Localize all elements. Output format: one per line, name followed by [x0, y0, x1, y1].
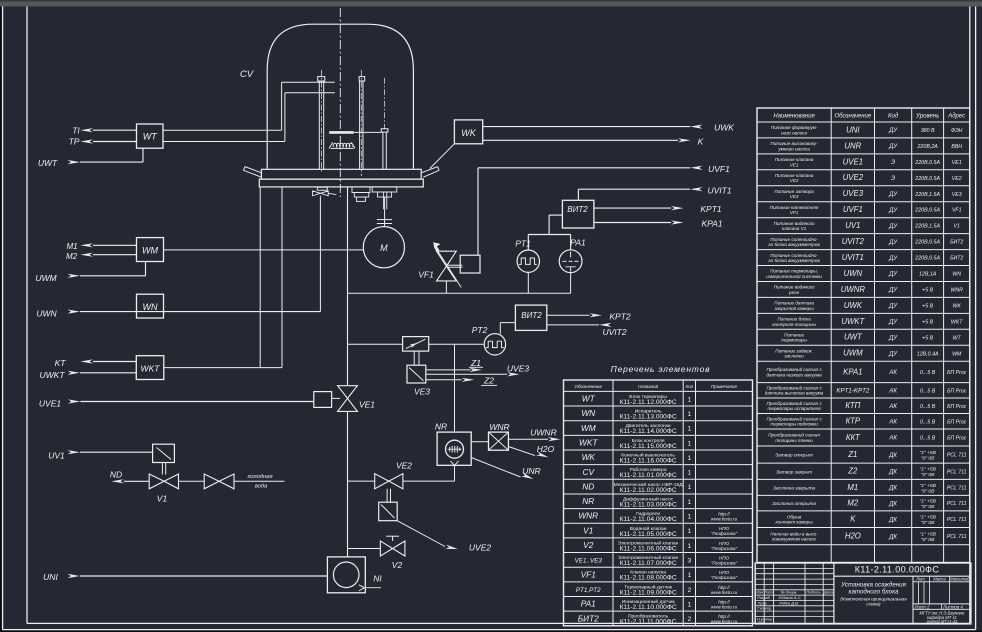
VF1 stem: [445, 281, 447, 293]
gauge PT2 thermocouple: [484, 334, 505, 355]
shaft coupling: [377, 219, 392, 221]
svg-text:0...5 В: 0...5 В: [920, 436, 936, 442]
svg-text:го блока вакуумметров: го блока вакуумметров: [768, 242, 820, 247]
pump NR diffusion: [437, 432, 471, 465]
arrow TP: [80, 139, 93, 143]
svg-text:UVIT1: UVIT1: [707, 186, 731, 196]
svg-text:"1" +5В: "1" +5В: [919, 483, 936, 489]
elements table: [564, 380, 753, 626]
svg-text:WT: WT: [143, 132, 158, 142]
electrode right rod: [359, 81, 361, 169]
svg-text:Затвор открыт: Затвор открыт: [775, 453, 813, 459]
wire BIT2 to gauges: [549, 214, 562, 216]
wire UVE3: [426, 373, 507, 375]
svg-text:толщины пленки: толщины пленки: [775, 438, 813, 443]
svg-text:Преобразований сигнал с: Преобразований сигнал с: [766, 385, 822, 391]
svg-text:Преобразований сигнал с: Преобразований сигнал с: [766, 415, 822, 421]
shutter shaft: [384, 78, 386, 129]
NI exhaust: [364, 587, 381, 589]
svg-text:UWNR: UWNR: [530, 427, 556, 437]
svg-text:PCL 711: PCL 711: [947, 517, 967, 523]
wire UNI: [68, 574, 81, 578]
svg-text:WN: WN: [143, 302, 158, 312]
svg-text:NI: NI: [373, 574, 382, 584]
gate valve VE3 body: [403, 337, 429, 352]
svg-text:ДУ: ДУ: [888, 144, 898, 150]
svg-text:0...5 В: 0...5 В: [920, 419, 936, 425]
svg-text:UNR: UNR: [522, 466, 540, 476]
svg-text:ДУ: ДУ: [888, 336, 898, 342]
svg-text:H2O: H2O: [845, 532, 861, 541]
manifold wire: [348, 292, 571, 294]
svg-text:“Геофизика”: “Геофизика”: [711, 546, 738, 551]
title block name cell: [912, 576, 914, 624]
svg-text:БП Proc: БП Proc: [947, 388, 967, 394]
svg-text:Подпись: Подпись: [807, 591, 821, 595]
gauge PT1 thermocouple: [517, 250, 539, 272]
svg-text:реле: реле: [788, 290, 800, 295]
svg-text:V1: V1: [954, 224, 960, 230]
arrow UWNR: [548, 437, 561, 441]
svg-text:К11-2.11.02.000ФС: К11-2.11.02.000ФС: [620, 487, 677, 494]
title block left grid: [763, 563, 765, 624]
svg-text:PCL 711: PCL 711: [947, 453, 967, 459]
svg-text:UWN: UWN: [844, 269, 863, 278]
svg-text:КТП: КТП: [845, 401, 860, 410]
svg-text:закрытой камеры: закрытой камеры: [773, 305, 814, 311]
svg-text:К11-2.11.03.000ФС: К11-2.11.03.000ФС: [620, 501, 677, 508]
svg-text:Э: Э: [891, 160, 895, 166]
VE2 stems: [386, 489, 388, 502]
wire KPT2: [547, 314, 590, 316]
wire KPA1: [594, 222, 671, 224]
svg-text:WKT: WKT: [579, 437, 598, 447]
gauge stems to manifold: [527, 272, 529, 293]
chamber centerline: [339, 8, 341, 197]
box WM shutter motor driver: [137, 238, 164, 262]
svg-text:KPT1: KPT1: [700, 204, 722, 214]
svg-text:WKT: WKT: [951, 319, 963, 325]
svg-text:UWT: UWT: [844, 333, 863, 342]
VE3 stems: [413, 351, 415, 365]
svg-text:UWNR: UWNR: [841, 285, 866, 294]
wire main to V2: [348, 548, 381, 550]
svg-text:WK: WK: [582, 452, 596, 462]
svg-text:12В,1А: 12В,1А: [919, 272, 937, 278]
svg-text:12В,0.4А: 12В,0.4А: [917, 351, 939, 357]
svg-text:датчика высокого вакуума: датчика высокого вакуума: [765, 391, 824, 396]
shutter bar: [329, 131, 353, 134]
svg-text:VF1: VF1: [790, 210, 799, 215]
svg-text:К11-2.11.15.000ФС: К11-2.11.15.000ФС: [620, 443, 677, 450]
svg-text:PT1: PT1: [515, 239, 531, 249]
svg-text:UV1: UV1: [48, 450, 65, 460]
svg-text:БИТ2: БИТ2: [578, 613, 599, 623]
svg-text:UNI: UNI: [846, 125, 860, 134]
svg-text:UVIT2: UVIT2: [842, 237, 865, 246]
svg-text:H2O: H2O: [537, 444, 555, 454]
wire H2O diagonal: [508, 447, 535, 456]
right handle: [421, 167, 437, 173]
svg-text:1: 1: [687, 601, 691, 608]
svg-text:БИТ2: БИТ2: [950, 240, 963, 246]
V1 actuator box: [153, 444, 175, 462]
wire UWM: [68, 274, 81, 278]
svg-text:"0" 0В: "0" 0В: [921, 504, 935, 510]
arrow KT: [80, 359, 93, 363]
wire UVE2 diagonal: [397, 521, 445, 547]
svg-text:АК: АК: [888, 389, 897, 395]
svg-text:К11-2.11.06.000ФС: К11-2.11.06.000ФС: [620, 545, 677, 552]
svg-text:UWK: UWK: [844, 301, 863, 310]
svg-text:UVE3: UVE3: [843, 189, 864, 198]
arrow M2: [80, 253, 93, 257]
svg-text:PA1: PA1: [570, 238, 586, 248]
svg-text:измерительной системы: измерительной системы: [766, 273, 822, 279]
wire cold water: [234, 480, 284, 482]
svg-text:WK: WK: [953, 303, 962, 309]
svg-text:220В,0.5А: 220В,0.5А: [914, 176, 940, 182]
svg-text:ДУ: ДУ: [888, 304, 898, 310]
svg-text:M1: M1: [66, 242, 77, 251]
svg-text:VE3: VE3: [790, 194, 799, 199]
svg-text:“Геофизика”: “Геофизика”: [711, 531, 738, 536]
svg-text:Z2: Z2: [847, 467, 858, 476]
manual water valve: [204, 474, 234, 489]
svg-text:"0" 0В: "0" 0В: [921, 520, 935, 526]
wire V1 to manual valve: [179, 480, 205, 482]
svg-text:Названий: Названий: [638, 383, 658, 389]
svg-text:Примечание: Примечание: [711, 384, 737, 389]
svg-text:M2: M2: [66, 252, 78, 261]
wire WM to motor: [164, 249, 364, 251]
svg-text:контакт камеры: контакт камеры: [775, 520, 813, 525]
svg-text:"0" 0В: "0" 0В: [921, 472, 935, 478]
svg-text:ДУ: ДУ: [888, 320, 898, 326]
arrow KPA1: [671, 220, 684, 224]
svg-text:Код: Код: [888, 114, 899, 120]
svg-text:UNI: UNI: [43, 572, 58, 582]
arrow Z2: [462, 378, 475, 382]
feedthrough vent valve under plate: [317, 187, 327, 190]
arrow K: [678, 138, 691, 142]
svg-text:220В,2А: 220В,2А: [916, 144, 938, 150]
svg-text:K: K: [698, 136, 704, 146]
svg-text:БП Proc: БП Proc: [947, 436, 967, 442]
svg-text:К11-2.11.14.000ФС: К11-2.11.14.000ФС: [620, 428, 677, 435]
svg-text:Рябов Д.В.: Рябов Д.В.: [779, 600, 799, 605]
svg-text:1: 1: [687, 455, 691, 462]
VE3 solenoid box: [407, 365, 426, 383]
arrow UWK: [690, 125, 703, 129]
svg-text:VF1: VF1: [418, 270, 434, 280]
svg-text:NR: NR: [582, 496, 594, 506]
svg-text:ДК: ДК: [888, 501, 897, 507]
wire PT2 to BIT2 lower: [499, 323, 501, 334]
VF1 actuator box: [460, 255, 480, 273]
svg-text:контроля толщины: контроля толщины: [772, 322, 816, 327]
wire WKT to chamber: [164, 367, 282, 369]
outer drawing border: [2, 7, 4, 630]
svg-text:клапана V1: клапана V1: [782, 226, 807, 231]
svg-text:Разраб.: Разраб.: [757, 596, 771, 600]
wire UWK: [483, 126, 690, 128]
title block list row: [913, 603, 971, 605]
svg-text:Юдаков А.С.: Юдаков А.С.: [779, 595, 802, 600]
svg-text:Кол: Кол: [686, 384, 694, 389]
svg-text:220В,1.5А: 220В,1.5А: [914, 192, 940, 198]
svg-text:Уровень: Уровень: [915, 114, 939, 120]
wire UVIT2: [547, 324, 599, 326]
svg-text:VE2: VE2: [396, 461, 412, 471]
svg-text:UWN: UWN: [36, 309, 57, 319]
arrow Z1: [469, 368, 482, 372]
svg-text:VE1..VE3: VE1..VE3: [575, 558, 603, 565]
svg-text:ДК: ДК: [888, 453, 897, 459]
svg-text:ДУ: ДУ: [888, 256, 898, 262]
svg-text:К11-2.11.13.000ФС: К11-2.11.13.000ФС: [620, 414, 677, 421]
wire WN to chamber vent: [319, 196, 321, 312]
svg-text:WNR: WNR: [489, 422, 509, 432]
box WN evaporator supply: [137, 294, 164, 318]
V1 stems: [161, 463, 163, 475]
svg-text:ФЭН: ФЭН: [951, 128, 963, 134]
svg-text:KPT2: KPT2: [609, 311, 631, 321]
svg-text:Заслонка закрыта: Заслонка закрыта: [773, 485, 816, 491]
title block doc number cell: [833, 563, 835, 624]
arrow KPT1: [671, 206, 684, 210]
svg-text:"1" +5В: "1" +5В: [919, 532, 936, 538]
wire KPT1: [594, 207, 671, 209]
svg-text:термопары подложки: термопары подложки: [770, 422, 818, 427]
evaporator coil WN: [329, 142, 355, 148]
wire Z2: [426, 379, 462, 381]
svg-text:UWM: UWM: [843, 349, 863, 358]
limit switch link wire: [430, 144, 454, 169]
box BIT2 lower vacuum meter: [515, 305, 546, 330]
svg-text:380 В: 380 В: [921, 128, 935, 134]
svg-text:WNR: WNR: [578, 511, 598, 521]
svg-text:ДУ: ДУ: [888, 288, 898, 294]
svg-text:WK: WK: [461, 128, 476, 138]
motor M: [363, 227, 404, 268]
svg-text:Лист 2: Лист 2: [914, 604, 931, 609]
svg-text:VE2: VE2: [790, 178, 799, 183]
wire NR to WNR: [471, 441, 488, 443]
svg-text:0...5 В: 0...5 В: [920, 388, 936, 394]
svg-text:ДУ: ДУ: [888, 240, 898, 246]
svg-text:V1: V1: [157, 494, 168, 504]
svg-text:Z1: Z1: [470, 358, 481, 368]
svg-text:1: 1: [687, 484, 691, 491]
wire WT to substrate 1: [163, 129, 282, 131]
svg-text:220В,0.5А: 220В,0.5А: [914, 240, 940, 246]
svg-text:ДУ: ДУ: [888, 128, 898, 134]
svg-text:UWT: UWT: [38, 158, 58, 168]
arrow KPT2: [590, 313, 603, 317]
svg-text:АК: АК: [888, 404, 897, 410]
svg-text:www.festo.ru: www.festo.ru: [711, 619, 738, 624]
svg-text:UWKT: UWKT: [841, 317, 865, 326]
svg-text:Э: Э: [891, 176, 895, 182]
wire UVE1: [68, 399, 81, 403]
svg-text:WM: WM: [952, 351, 962, 357]
wire UWN: [68, 310, 81, 314]
svg-text:PCL 711: PCL 711: [947, 501, 967, 507]
valve V2 manual: [380, 541, 405, 556]
svg-text:К11-2.11.10.000ФС: К11-2.11.10.000ФС: [620, 604, 677, 611]
svg-text:VE2: VE2: [952, 176, 962, 182]
svg-text:UVF1: UVF1: [843, 205, 863, 214]
svg-text:ДК: ДК: [888, 534, 897, 540]
valve VF1 needle: [437, 251, 457, 281]
svg-text:Z1: Z1: [847, 450, 857, 459]
svg-text:PT2: PT2: [472, 325, 488, 335]
arrow M1: [80, 243, 93, 247]
svg-text:V2: V2: [583, 540, 594, 550]
arrow UVE3: [507, 372, 519, 376]
svg-text:Листов 4: Листов 4: [942, 604, 963, 609]
svg-text:220В,1.5А: 220В,1.5А: [914, 224, 940, 230]
svg-text:WM: WM: [581, 423, 596, 433]
svg-text:WT: WT: [582, 394, 596, 404]
svg-text:TP: TP: [69, 137, 80, 147]
svg-text:220В,0.5А: 220В,0.5А: [914, 208, 940, 214]
svg-text:UVE1: UVE1: [843, 157, 863, 166]
base plate lower: [259, 179, 423, 187]
svg-text:ДК: ДК: [888, 469, 897, 475]
svg-text:группа МТ11-43: группа МТ11-43: [926, 619, 958, 624]
svg-text:UWM: UWM: [35, 273, 57, 283]
arrow UVIT1: [690, 187, 703, 191]
svg-text:ДУ: ДУ: [888, 208, 898, 214]
svg-text:PT1,PT2: PT1,PT2: [576, 587, 601, 594]
bottom black edge: [0, 630, 982, 632]
svg-text:БИТ2: БИТ2: [950, 256, 963, 262]
svg-text:"1" +5В: "1" +5В: [919, 499, 936, 505]
wire UVF1: [478, 167, 690, 169]
box BIT2 upper vacuum meter: [562, 200, 594, 228]
wire K: [483, 139, 678, 141]
svg-text:датчика низкого вакуума: датчика низкого вакуума: [767, 372, 823, 377]
svg-text:+5 В: +5 В: [922, 303, 934, 309]
gauge PA1 ionization: [559, 250, 582, 273]
svg-text:вода: вода: [255, 484, 268, 490]
svg-text:ВИТ2: ВИТ2: [567, 205, 588, 214]
svg-text:Z2: Z2: [483, 376, 494, 386]
svg-text:ND: ND: [582, 481, 594, 491]
svg-text:К11-2.11.05.000ФС: К11-2.11.05.000ФС: [620, 531, 677, 538]
svg-text:К11-2.11.16.000ФС: К11-2.11.16.000ФС: [620, 458, 677, 465]
svg-text:АК: АК: [888, 419, 897, 425]
svg-text:ДУ: ДУ: [888, 272, 898, 278]
wire manifold down to NR: [454, 344, 456, 432]
VF1 arrow: [436, 248, 461, 287]
svg-text:Заслонка открыта: Заслонка открыта: [772, 501, 816, 507]
svg-text:Перечень элементов: Перечень элементов: [611, 364, 711, 374]
svg-text:К11-2.11.12.000ФС: К11-2.11.12.000ФС: [620, 399, 677, 406]
power supply table: [757, 108, 970, 563]
svg-text:К11-2.11.11.000ФС: К11-2.11.11.000ФС: [620, 619, 677, 626]
svg-text:ВИТ2: ВИТ2: [521, 311, 542, 320]
svg-text:PA1: PA1: [581, 599, 596, 609]
svg-text:TI: TI: [72, 125, 80, 135]
branch wire to VE3: [348, 343, 403, 345]
wire chamber aux vertical: [259, 187, 261, 368]
svg-text:VE1: VE1: [790, 162, 799, 167]
title block lit massa masshtab: [913, 581, 971, 583]
svg-text:термопары испарителя: термопары испарителя: [767, 406, 821, 411]
svg-text:го блока вакуумметров: го блока вакуумметров: [768, 258, 820, 263]
svg-text:Преобразований сигнал: Преобразований сигнал: [768, 432, 820, 438]
main pump line lower: [347, 411, 349, 557]
svg-text:V2: V2: [392, 560, 403, 570]
wire UV1: [68, 450, 81, 454]
svg-text:1: 1: [687, 528, 691, 535]
box WKT thickness control: [136, 356, 164, 380]
svg-text:WM: WM: [142, 246, 158, 256]
svg-text:1: 1: [687, 426, 691, 433]
left black edge: [0, 7, 2, 631]
svg-text:VE3: VE3: [952, 192, 962, 198]
left handle: [245, 167, 261, 173]
valve VE2: [375, 474, 403, 489]
svg-text:1: 1: [687, 470, 691, 477]
svg-text:K: K: [850, 515, 856, 524]
svg-text:Преобразований сигнал с: Преобразований сигнал с: [766, 366, 822, 372]
svg-text:UWK: UWK: [714, 123, 734, 133]
box WK door switch: [454, 120, 482, 144]
svg-text:WKT: WKT: [141, 363, 161, 373]
svg-text:VE1: VE1: [952, 160, 962, 166]
svg-text:ККТ: ККТ: [846, 433, 861, 442]
svg-text:БП Proc: БП Proc: [947, 404, 967, 410]
svg-text:ND: ND: [110, 469, 122, 479]
svg-text:1: 1: [687, 543, 691, 550]
svg-text:Т.контр.: Т.контр.: [757, 607, 772, 611]
svg-text:умного насоса: умного насоса: [777, 146, 810, 151]
wire VE2 to NR: [403, 480, 455, 482]
svg-text:1: 1: [687, 499, 691, 506]
svg-text:220В,0.5А: 220В,0.5А: [914, 256, 940, 262]
svg-text:www.festo.ru: www.festo.ru: [711, 517, 738, 522]
wire UWKT: [68, 371, 81, 375]
svg-text:www.festo.ru: www.festo.ru: [711, 604, 738, 609]
svg-text:холодная: холодная: [246, 474, 272, 480]
svg-text:KPT1-KPT2: KPT1-KPT2: [836, 388, 870, 395]
svg-text:M: M: [380, 243, 388, 253]
arrow UVE2: [445, 545, 458, 552]
svg-text:V1: V1: [583, 525, 593, 535]
svg-text:Затвор закрыт: Затвор закрыт: [776, 469, 812, 475]
svg-text:ДК: ДК: [888, 517, 897, 523]
svg-text:АК: АК: [888, 436, 897, 442]
wire Z1: [426, 369, 471, 371]
wire UVIT1: [577, 189, 579, 200]
svg-text:"0" 0В: "0" 0В: [921, 537, 935, 543]
svg-text:NR: NR: [435, 422, 447, 432]
svg-text:ДК: ДК: [888, 486, 897, 492]
svg-text:“Геофизика”: “Геофизика”: [711, 560, 738, 565]
svg-text:UVIT2: UVIT2: [602, 327, 626, 337]
svg-text:Пров.: Пров.: [757, 601, 767, 605]
svg-text:Масштаб: Масштаб: [950, 577, 970, 582]
svg-text:KPA1: KPA1: [701, 219, 722, 229]
svg-text:КТР: КТР: [846, 417, 861, 426]
box WT thermocouple unit: [137, 124, 164, 148]
svg-text:1: 1: [687, 411, 691, 418]
svg-text:M2: M2: [847, 499, 858, 508]
